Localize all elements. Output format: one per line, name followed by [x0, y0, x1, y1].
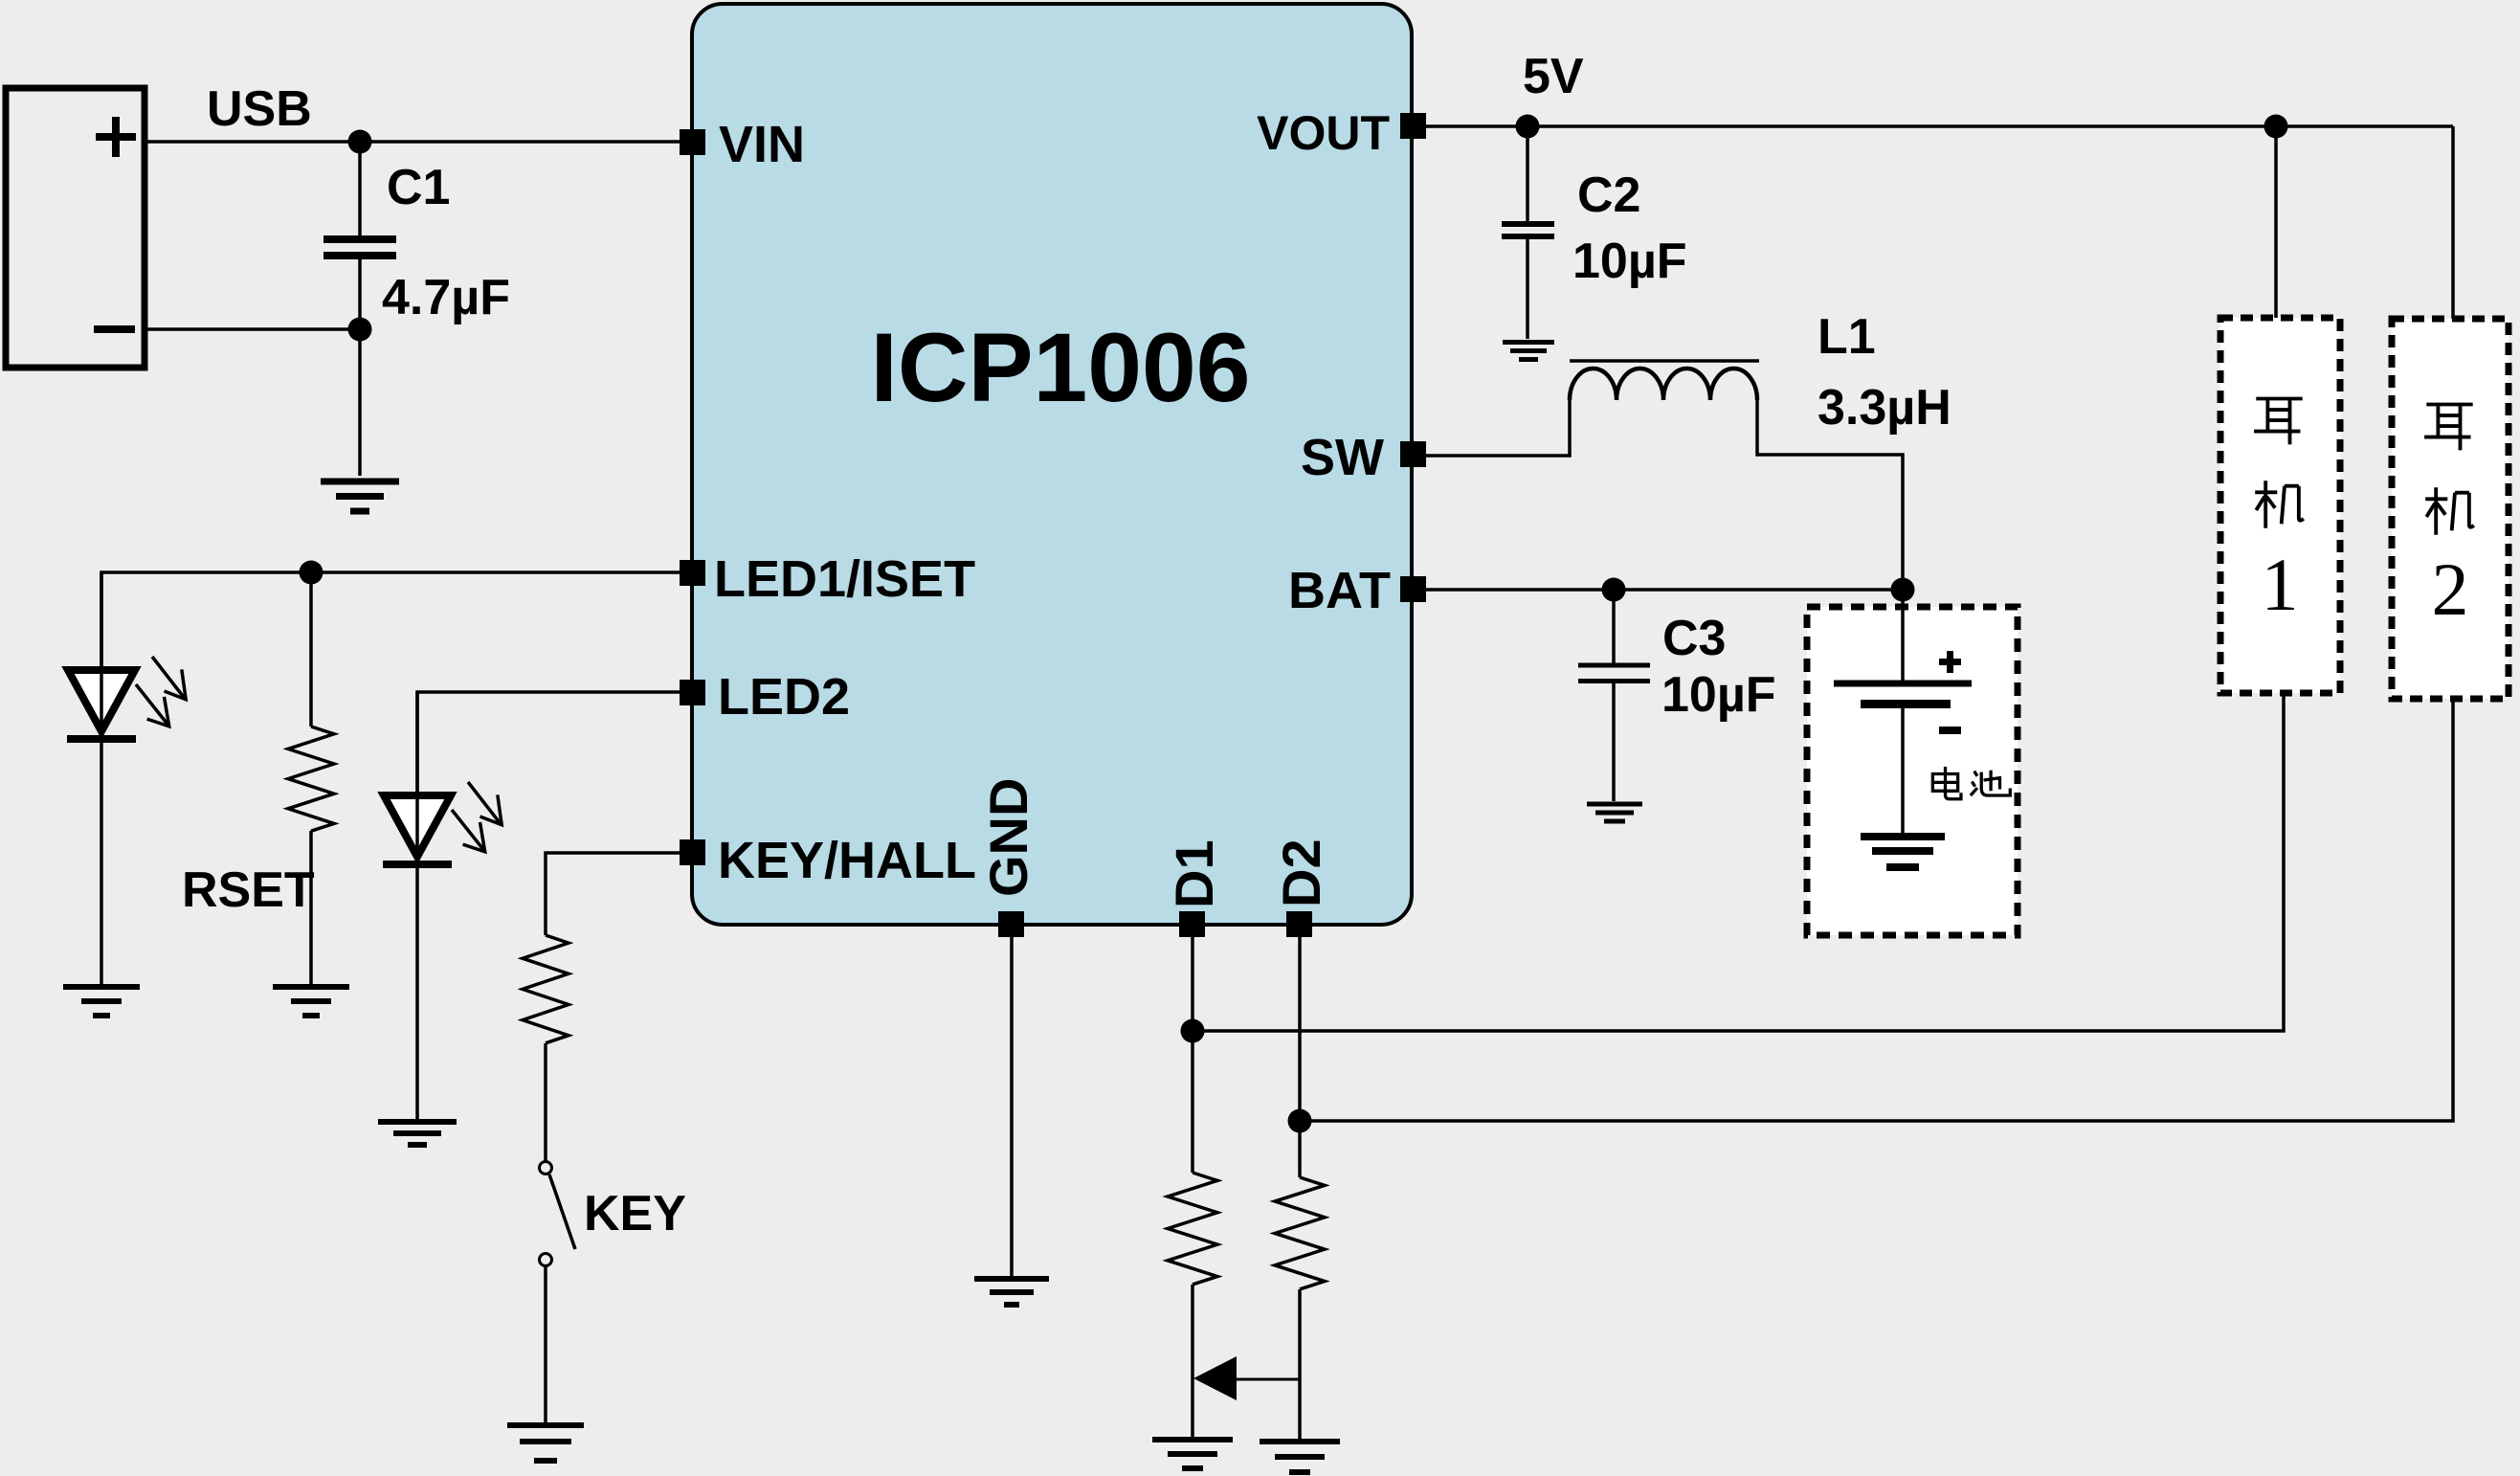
- pin VIN: [680, 116, 805, 173]
- ground C1: [321, 481, 399, 511]
- svg-text:D1: D1: [1164, 839, 1224, 908]
- svg-text:LED2: LED2: [718, 668, 850, 726]
- svg-text:4.7µF: 4.7µF: [382, 270, 510, 325]
- wire USB- to C1: [145, 327, 360, 331]
- IC U1 body: [692, 4, 1412, 925]
- ground D2: [1260, 1442, 1340, 1472]
- resistor R D2: [1275, 1177, 1325, 1289]
- wire GND pin to ground: [1010, 937, 1014, 1276]
- wire VOUT rail 5V: [1426, 124, 2453, 128]
- ground D1: [1152, 1440, 1233, 1468]
- svg-text:VIN: VIN: [719, 116, 805, 173]
- wire to headphone2: [2451, 126, 2455, 319]
- svg-text:USB: USB: [207, 81, 312, 137]
- wire D2 to headphone2: [1300, 699, 2453, 1121]
- resistor RSET: [288, 727, 334, 831]
- node RSET branch: [300, 561, 323, 585]
- diode D3: [1193, 1356, 1237, 1400]
- pin LED2: [680, 668, 850, 726]
- ground GND pin: [974, 1279, 1049, 1305]
- svg-text:10µF: 10µF: [1572, 234, 1687, 289]
- wire KEY/HALL net: [546, 853, 680, 935]
- ground KEY: [507, 1425, 584, 1461]
- resistor R D1: [1168, 1173, 1217, 1285]
- node headphone1 branch: [2264, 115, 2288, 139]
- wire LED2 to ground: [415, 868, 419, 1119]
- label battery (dianchi): [1932, 767, 2010, 799]
- wire RSET branch: [309, 572, 313, 727]
- svg-text:2: 2: [2432, 548, 2469, 631]
- svg-text:3.3µH: 3.3µH: [1818, 380, 1951, 436]
- wire D1 vertical: [1191, 937, 1194, 1173]
- pin LED1/ISET: [680, 550, 975, 608]
- wire LED1 to ground: [100, 743, 103, 984]
- pin VOUT: [1257, 106, 1426, 160]
- svg-text:C1: C1: [387, 160, 450, 215]
- svg-text:10µF: 10µF: [1661, 667, 1776, 723]
- label headphone2 (erji 2): [2424, 405, 2474, 632]
- pin BAT: [1288, 562, 1426, 619]
- wire switch to ground: [544, 1266, 547, 1422]
- pin SW: [1301, 429, 1426, 486]
- resistor R KEY: [523, 935, 569, 1043]
- svg-text:LED1/ISET: LED1/ISET: [714, 550, 975, 608]
- svg-text:KEY/HALL: KEY/HALL: [718, 832, 976, 889]
- wire SW to L1: [1426, 400, 1570, 456]
- node C3 top: [1602, 578, 1626, 602]
- node battery top: [1891, 578, 1915, 602]
- wire LED1/ISET net: [101, 572, 680, 670]
- USB source box: [6, 88, 145, 368]
- svg-text:KEY: KEY: [584, 1186, 686, 1241]
- label headphone1 (erji 1): [2254, 399, 2304, 627]
- wire diode to D2: [1237, 1378, 1300, 1381]
- svg-text:5V: 5V: [1523, 49, 1584, 104]
- ground C3: [1587, 804, 1642, 821]
- ground battery: [1861, 837, 1945, 867]
- wire D1 to headphone1: [1193, 693, 2284, 1031]
- svg-text:VOUT: VOUT: [1257, 106, 1390, 160]
- node VOUT/C2: [1516, 115, 1540, 139]
- ground C2: [1503, 343, 1554, 360]
- pin KEY/HALL: [680, 832, 976, 889]
- ground LED1: [63, 987, 140, 1016]
- battery BT1 box: [1807, 607, 2018, 935]
- wire resistor to switch: [544, 1043, 547, 1162]
- wire RSET to ground: [309, 831, 313, 984]
- headphone2 box: [2392, 319, 2509, 699]
- wire USB+ to VIN: [145, 140, 680, 144]
- LED2: [383, 692, 502, 864]
- LED1: [67, 572, 186, 739]
- svg-text:C2: C2: [1577, 168, 1640, 223]
- capacitor C3: [1578, 590, 1650, 801]
- wire to headphone1: [2274, 126, 2278, 318]
- node USB/C1 top: [348, 130, 372, 154]
- headphone1 box: [2220, 318, 2340, 693]
- node D1 branch: [1181, 1019, 1205, 1043]
- svg-text:L1: L1: [1818, 309, 1876, 365]
- wire D1 resistor to ground: [1191, 1285, 1194, 1437]
- svg-text:SW: SW: [1301, 429, 1384, 486]
- pin D1: [1164, 839, 1224, 937]
- pin D2: [1271, 839, 1331, 937]
- capacitor C1: [323, 142, 396, 476]
- svg-text:BAT: BAT: [1288, 562, 1391, 619]
- ground RSET: [273, 987, 349, 1016]
- svg-text:C3: C3: [1662, 611, 1726, 666]
- wire BAT rail: [1426, 588, 1903, 592]
- capacitor C2: [1502, 126, 1554, 339]
- svg-text:1: 1: [2262, 543, 2299, 626]
- node USB/C1 bottom: [348, 318, 372, 342]
- battery BT1: [1834, 590, 1972, 834]
- svg-text:D2: D2: [1271, 839, 1331, 907]
- node D2 branch: [1288, 1109, 1312, 1133]
- switch KEY: [540, 1162, 576, 1266]
- wire D2 resistor to ground: [1298, 1289, 1302, 1439]
- inductor L1: [1570, 361, 1759, 400]
- svg-text:GND: GND: [978, 778, 1038, 897]
- pin GND: [978, 778, 1038, 937]
- wire L1 to BAT node: [1757, 400, 1903, 586]
- ground LED2: [378, 1122, 457, 1145]
- svg-text:RSET: RSET: [182, 862, 315, 918]
- svg-text:ICP1006: ICP1006: [871, 313, 1251, 422]
- wire D2 vertical: [1298, 937, 1302, 1177]
- wire LED2 net: [417, 692, 680, 795]
